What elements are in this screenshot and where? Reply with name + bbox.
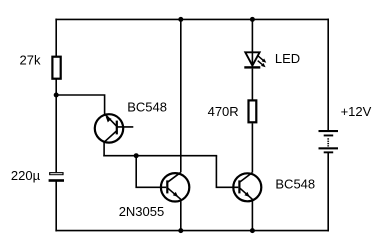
- battery BT1 long plate bottom: [319, 147, 339, 149]
- resistor R2 470R: [249, 100, 257, 122]
- transistor Q3 emitter diagonal: [240, 188, 253, 200]
- LED D1 emission arrow 2: [258, 61, 266, 68]
- capacitor C1 220µ bottom plate: [49, 179, 64, 182]
- wire right rail upper (top rail to battery): [327, 19, 329, 130]
- wire node A to Q1 top terminal: [56, 95, 104, 114]
- transistor Q1 BC548 circle: [95, 114, 123, 142]
- transistor Q2 emitter arrow: [173, 192, 178, 197]
- wire top rail: [56, 18, 328, 20]
- wire top rail to LED anode (passes through LED symbol): [251, 19, 253, 65]
- LED D1 emission arrow 1: [258, 56, 266, 63]
- wire R1 bottom to node A: [55, 80, 57, 96]
- wire node B to Q2 base: [136, 156, 166, 188]
- transistor Q3 BC548 circle: [233, 173, 261, 201]
- node top rail dot at Q2 collector: [178, 17, 183, 22]
- transistor Q3 collector diagonal: [240, 173, 253, 183]
- battery BT1 long plate top: [319, 130, 339, 132]
- node top rail dot at LED branch: [250, 17, 255, 22]
- transistor Q1 emitter arrow: [106, 116, 112, 122]
- svg-text:2N3055: 2N3055: [119, 204, 165, 219]
- wire Q2 emitter down to bottom rail: [180, 199, 182, 230]
- svg-text:220µ: 220µ: [11, 168, 41, 183]
- wire right rail lower (battery to bottom rail): [327, 153, 329, 230]
- wire C1 to bottom rail: [55, 182, 57, 231]
- wire emitter row horizontal: [104, 155, 216, 157]
- node bottom rail dot at Q2 emitter: [178, 228, 183, 233]
- node A junction dot: [54, 93, 59, 98]
- svg-text:BC548: BC548: [127, 99, 167, 114]
- wire node A down to C1: [55, 95, 57, 172]
- transistor Q2 base bar: [166, 180, 168, 193]
- svg-text:27k: 27k: [20, 52, 41, 67]
- transistor Q2 emitter diagonal: [167, 188, 180, 200]
- wire left rail upper segment: [55, 19, 57, 56]
- svg-text:+12V: +12V: [341, 104, 372, 119]
- wire Q1 collector down: [103, 142, 105, 156]
- transistor Q3 emitter arrow: [244, 192, 249, 197]
- wire LED cathode to R2: [251, 69, 253, 101]
- transistor Q3 base bar: [238, 180, 240, 193]
- LED D1 cathode bar: [244, 66, 260, 68]
- node B junction dot: [134, 153, 139, 158]
- svg-text:BC548: BC548: [275, 177, 315, 192]
- wire Q3 collector up to R2: [251, 123, 253, 172]
- transistor Q1 emitter diagonal (upper): [105, 114, 117, 126]
- capacitor C1 220µ top plate: [49, 172, 64, 175]
- wire Q2 collector up to top rail: [180, 19, 182, 172]
- svg-text:LED: LED: [275, 51, 300, 66]
- resistor R1 27k: [52, 57, 60, 79]
- LED D1 triangle: [245, 52, 259, 65]
- transistor Q1 base lead stub: [117, 126, 134, 128]
- transistor Q2 collector diagonal: [167, 172, 180, 182]
- battery BT1 short plate bottom: [324, 151, 334, 153]
- transistor Q1 base bar: [116, 121, 118, 135]
- node bottom rail dot at Q3 emitter: [250, 228, 255, 233]
- wire bottom rail: [56, 230, 328, 232]
- transistor Q2 2N3055 circle: [161, 173, 189, 201]
- wire emitter row to Q3 base (down then right): [216, 156, 238, 188]
- transistor Q1 collector diagonal (lower): [104, 131, 117, 142]
- battery BT1 short plate top: [324, 135, 334, 137]
- battery BT1 dotted cells: [327, 138, 329, 146]
- wire Q3 emitter down to bottom rail: [251, 199, 253, 230]
- svg-text:470R: 470R: [208, 104, 239, 119]
